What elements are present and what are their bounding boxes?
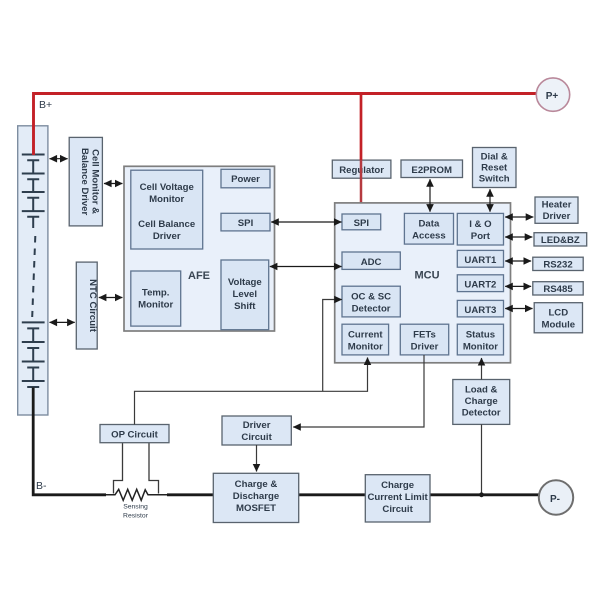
svg-text:Shift: Shift	[234, 301, 256, 312]
svg-text:Load &: Load &	[465, 385, 498, 396]
svg-text:Level: Level	[233, 289, 258, 300]
svg-text:Detector: Detector	[352, 304, 391, 315]
wire red regulator feed	[360, 94, 363, 206]
svg-text:Switch: Switch	[479, 174, 510, 185]
op-amp block OP Circuit	[100, 425, 169, 443]
svg-text:Driver: Driver	[411, 342, 439, 353]
svg-text:Power: Power	[231, 174, 260, 185]
regulator block Regulator	[332, 160, 391, 178]
wire Load & Charge Detector to Status Monitor	[481, 358, 483, 380]
wire Driver Circuit to Charge & Discharge MOSFET	[256, 445, 258, 472]
wire UART2 to RS485 (bidirectional)	[505, 285, 531, 287]
MCU sub-block UART1	[457, 250, 503, 267]
svg-text:Voltage: Voltage	[228, 277, 262, 288]
svg-text:Data: Data	[419, 219, 440, 230]
wire UART3 to LCD Module (bidirectional)	[505, 308, 532, 310]
svg-text:Module: Module	[542, 320, 576, 331]
svg-text:Detector: Detector	[462, 408, 501, 419]
svg-text:FETs: FETs	[413, 330, 436, 341]
svg-text:NTC Circuit: NTC Circuit	[87, 279, 98, 333]
svg-text:Sensing: Sensing	[123, 504, 148, 511]
svg-text:LCD: LCD	[548, 308, 568, 319]
wire B- bus thick from battery bottom to P-	[33, 388, 540, 495]
wire Cell Monitor to AFE (bidirectional)	[104, 183, 122, 185]
node B- label	[36, 480, 47, 492]
AFE sub-block Voltage Level Shift	[221, 260, 269, 330]
terminal P+	[536, 78, 569, 111]
svg-text:UART2: UART2	[464, 279, 496, 290]
MCU sub-block I & O Port	[457, 213, 503, 245]
svg-text:Temp.: Temp.	[142, 288, 170, 299]
svg-text:B+: B+	[39, 99, 52, 111]
analog front end U1 AFE	[124, 166, 275, 331]
svg-text:UART1: UART1	[464, 255, 497, 266]
resistor R1 sensing resistor	[106, 489, 167, 519]
wire OP circuit sense taps	[114, 443, 159, 494]
svg-text:Access: Access	[412, 231, 446, 242]
svg-text:Cell Balance: Cell Balance	[138, 219, 195, 230]
svg-text:SPI: SPI	[238, 218, 254, 229]
svg-text:Status: Status	[466, 330, 495, 341]
svg-text:Circuit: Circuit	[241, 432, 272, 443]
svg-text:AFE: AFE	[188, 270, 210, 282]
microcontroller U3 MCU	[335, 203, 511, 363]
wire current-sense branch to OC & SC Detector	[323, 300, 342, 392]
svg-text:LED&BZ: LED&BZ	[541, 235, 580, 246]
cell-monitor block Cell Monitor & Balance Driver	[69, 137, 102, 226]
MCU sub-block ADC	[342, 252, 400, 269]
svg-text:Dial &: Dial &	[481, 152, 508, 163]
wire Dial & Reset Switch to I & O Port (bidirectional)	[489, 189, 491, 212]
driver block Driver Circuit	[222, 416, 291, 445]
svg-text:Cell Voltage: Cell Voltage	[140, 182, 194, 193]
svg-text:Current: Current	[348, 330, 383, 341]
wire current-sense signal to Current Monitor	[135, 358, 368, 425]
svg-text:Cell Monitor &: Cell Monitor &	[89, 149, 100, 214]
svg-text:RS485: RS485	[543, 284, 573, 295]
svg-text:MOSFET: MOSFET	[236, 503, 276, 514]
wire AFE SPI to MCU SPI (bidirectional)	[271, 221, 341, 223]
svg-text:Charge: Charge	[381, 480, 414, 491]
limiter block Charge Current Limit Circuit	[365, 475, 430, 522]
MCU sub-block Status Monitor	[457, 324, 503, 355]
wire battery to NTC Circuit (bidirectional)	[50, 321, 75, 323]
svg-text:ADC: ADC	[361, 257, 382, 268]
svg-text:Driver: Driver	[543, 211, 571, 222]
svg-text:Circuit: Circuit	[382, 504, 413, 515]
svg-text:Port: Port	[471, 231, 491, 242]
memory U2 E2PROM	[401, 160, 463, 178]
svg-text:OP Circuit: OP Circuit	[111, 430, 159, 441]
detector block Load & Charge Detector	[453, 380, 510, 425]
MCU sub-block UART3	[457, 300, 503, 317]
battery pack BT1	[18, 126, 48, 415]
AFE sub-block Power	[221, 169, 270, 188]
driver block Heater Driver	[535, 197, 578, 223]
switch S1 Dial & Reset Switch	[473, 148, 517, 188]
MCU sub-block SPI	[342, 214, 381, 230]
svg-text:Charge: Charge	[465, 396, 498, 407]
svg-text:E2PROM: E2PROM	[411, 165, 452, 176]
wire Load & Charge Detector tap to B- bus	[479, 424, 484, 497]
svg-text:Charge &: Charge &	[235, 479, 278, 490]
wire FETs Driver to Driver Circuit	[293, 355, 424, 427]
svg-text:Heater: Heater	[542, 200, 572, 211]
wire UART1 to RS232 (bidirectional)	[505, 260, 531, 262]
AFE sub-block Temp Monitor	[131, 271, 181, 326]
svg-text:OC & SC: OC & SC	[351, 292, 391, 303]
svg-text:Monitor: Monitor	[138, 300, 173, 311]
MCU sub-block Current Monitor	[342, 324, 389, 355]
svg-text:MCU: MCU	[415, 270, 440, 282]
thermistor block NTC Circuit	[76, 262, 98, 349]
svg-text:Monitor: Monitor	[463, 342, 498, 353]
svg-text:UART3: UART3	[464, 305, 496, 316]
wire NTC Circuit to AFE Temp Monitor (bidirectional)	[99, 297, 123, 299]
MCU sub-block UART2	[457, 275, 503, 292]
svg-text:Resistor: Resistor	[123, 513, 149, 520]
svg-text:Driver: Driver	[243, 420, 271, 431]
MCU sub-block OC & SC Detector	[342, 286, 400, 317]
svg-text:RS232: RS232	[543, 260, 572, 271]
svg-text:P-: P-	[550, 494, 560, 505]
wire E2PROM to Data Access (bidirectional)	[429, 179, 431, 212]
svg-text:Driver: Driver	[153, 231, 181, 242]
AFE sub-block Cell Voltage Monitor / Cell Balance Driver	[131, 170, 203, 249]
terminal P-	[539, 480, 573, 514]
svg-text:B-: B-	[36, 480, 47, 492]
svg-text:SPI: SPI	[354, 218, 370, 229]
node B+ label	[39, 99, 52, 111]
MCU sub-block Data Access	[404, 213, 453, 244]
interface block RS232	[533, 257, 583, 270]
svg-text:P+: P+	[546, 91, 559, 102]
wire red B+ bus from battery top to P+	[34, 94, 538, 156]
transistor block Q1 Charge & Discharge MOSFET	[213, 473, 298, 522]
wire I & O Port to LED&BZ (bidirectional)	[505, 236, 532, 238]
svg-text:Balance Driver: Balance Driver	[79, 148, 90, 215]
interface block RS485	[533, 282, 583, 295]
svg-text:Monitor: Monitor	[348, 342, 383, 353]
svg-text:Reset: Reset	[481, 163, 508, 174]
svg-text:Monitor: Monitor	[149, 194, 184, 205]
svg-text:I & O: I & O	[469, 219, 492, 230]
wire I & O Port to Heater Driver (bidirectional)	[505, 216, 533, 218]
svg-text:Current Limit: Current Limit	[367, 492, 428, 503]
wire Voltage Level Shift to ADC (bidirectional)	[270, 266, 342, 268]
wire battery to Cell Monitor (bidirectional)	[50, 158, 68, 160]
AFE sub-block SPI	[221, 213, 270, 231]
display block LCD Module	[534, 303, 582, 333]
svg-text:Discharge: Discharge	[233, 491, 279, 502]
indicator block LED&BZ	[534, 233, 587, 246]
MCU sub-block FETs Driver	[400, 324, 448, 355]
